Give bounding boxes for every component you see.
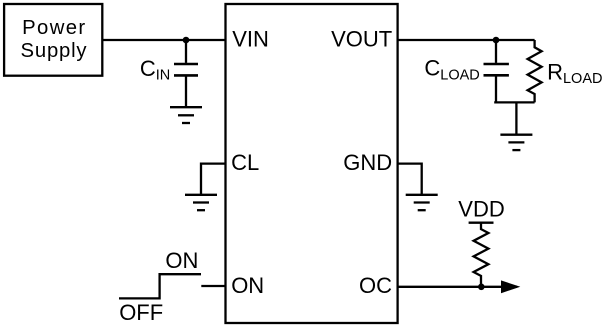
svg-text:ON: ON	[165, 248, 198, 273]
svg-text:VIN: VIN	[232, 27, 269, 52]
svg-text:OFF: OFF	[119, 300, 163, 325]
ON/OFF step waveform	[119, 274, 201, 298]
power rail VDD bar	[469, 222, 494, 224]
junction: OC node	[478, 284, 485, 291]
ground (load)	[500, 102, 532, 150]
arrow: OC output	[501, 280, 520, 293]
capacitor C_IN	[174, 40, 198, 107]
junction: VIN node	[183, 37, 190, 44]
resistor R_LOAD	[528, 40, 542, 102]
svg-text:CL: CL	[231, 150, 259, 175]
resistor R1 (VDD pull-up)	[474, 223, 489, 287]
junction: VOUT node	[493, 37, 500, 44]
wire: power supply to VIN	[102, 39, 226, 41]
svg-text:VOUT: VOUT	[331, 27, 392, 52]
svg-text:VDD: VDD	[458, 197, 504, 222]
wire: ON pin stub	[201, 285, 225, 287]
svg-text:Supply: Supply	[21, 40, 88, 62]
ground (GND)	[406, 195, 438, 210]
svg-text:GND: GND	[343, 150, 392, 175]
wire: VOUT to load	[398, 39, 535, 41]
svg-text:ON: ON	[231, 273, 264, 298]
power supply source box	[4, 4, 102, 76]
wire: CL pin to ground	[201, 164, 226, 195]
ground (CL)	[185, 195, 217, 210]
wire: GND pin to ground	[398, 164, 422, 195]
wire: load bottom rail	[494, 101, 534, 103]
wire: OC output	[398, 286, 517, 288]
ground (C_IN)	[170, 107, 202, 123]
capacitor C_LOAD	[484, 40, 509, 102]
svg-text:Power: Power	[22, 17, 87, 39]
IC U1 box	[226, 4, 398, 323]
svg-text:OC: OC	[359, 273, 392, 298]
